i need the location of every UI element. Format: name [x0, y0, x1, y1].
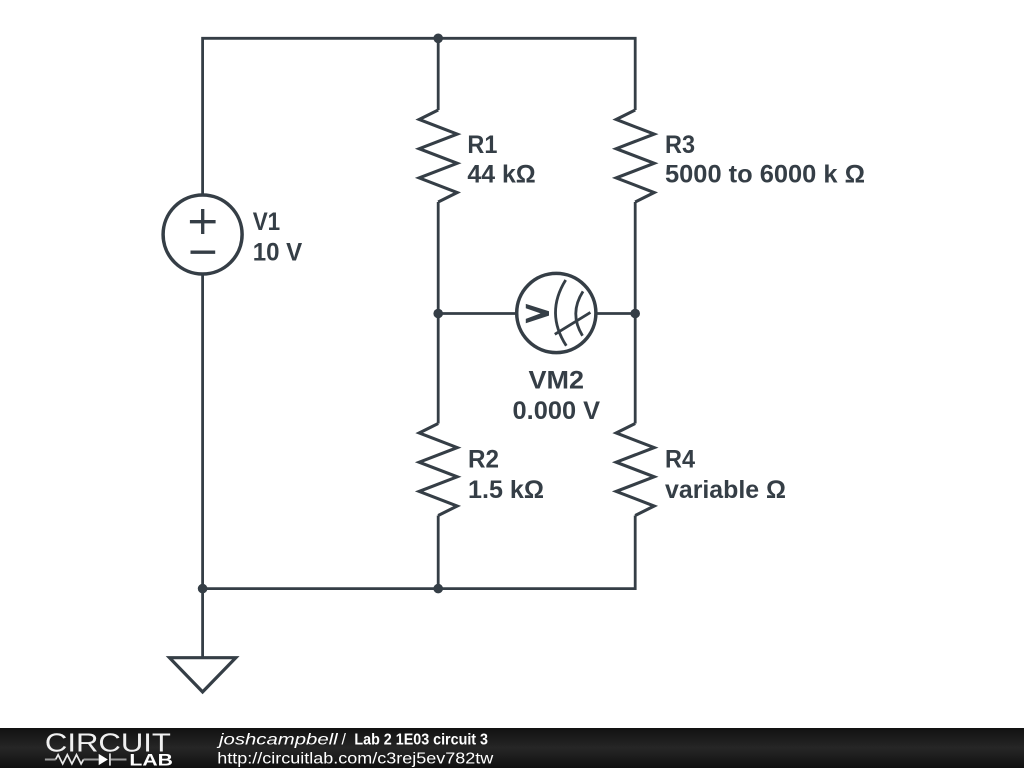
CircuitLab logo resistor squiggle wire — [45, 755, 127, 764]
svg-text:Lab 2 1E03 circuit 3: Lab 2 1E03 circuit 3 — [354, 731, 488, 748]
wire ground lead — [201, 589, 204, 658]
wire mid-right node to R4 top — [634, 314, 637, 424]
svg-text:variable Ω: variable Ω — [665, 476, 786, 504]
voltmeter VM2 — [517, 273, 596, 352]
svg-text:V1: V1 — [253, 208, 281, 236]
svg-text:1.5 kΩ: 1.5 kΩ — [468, 476, 544, 504]
svg-text:44 kΩ: 44 kΩ — [467, 161, 535, 189]
wire mid-left node to voltmeter — [438, 312, 517, 315]
svg-text:R3: R3 — [665, 131, 695, 159]
svg-text:R2: R2 — [468, 445, 499, 473]
resistor R1 — [419, 110, 457, 202]
wire bottom rail from V1 bottom through bottom bus up right rail — [203, 274, 636, 589]
node mid-left junction — [433, 309, 443, 319]
voltage source V1 — [163, 195, 242, 274]
wire R2 bottom to bottom rail — [437, 516, 440, 589]
wire middle rail top lead into R1 — [437, 38, 440, 110]
svg-text:R4: R4 — [665, 445, 695, 473]
svg-text:10 V: 10 V — [253, 239, 303, 267]
CircuitLab logo diode — [99, 753, 111, 765]
svg-text:joshcampbell: joshcampbell — [216, 731, 338, 748]
svg-text:/: / — [342, 731, 347, 748]
wire R3 bottom to mid-right node — [634, 202, 637, 314]
ground — [170, 658, 236, 692]
node top junction — [433, 34, 443, 44]
svg-text:VM2: VM2 — [529, 367, 585, 395]
node bottom-mid junction — [433, 584, 443, 594]
wire mid-left node to R2 top — [437, 314, 440, 424]
node bottom-left junction — [198, 584, 208, 594]
svg-text:0.000 V: 0.000 V — [513, 397, 601, 425]
svg-text:LAB: LAB — [129, 751, 173, 768]
wire R1 bottom to mid-left node — [437, 202, 440, 314]
footer credit line: joshcampbell / Lab 2 1E03 circuit 3 — [216, 731, 493, 767]
resistor R3 — [616, 110, 654, 202]
resistor R2 — [419, 424, 457, 516]
node mid-right junction — [630, 309, 640, 319]
svg-text:R1: R1 — [467, 131, 497, 159]
footer bar — [0, 728, 1024, 768]
svg-text:5000 to 6000 k Ω: 5000 to 6000 k Ω — [665, 161, 865, 189]
wire top rail with left and right drops — [203, 38, 636, 195]
svg-text:http://circuitlab.com/c3rej5ev: http://circuitlab.com/c3rej5ev782tw — [217, 751, 493, 768]
wire voltmeter to mid-right node — [596, 312, 635, 315]
resistor R4 — [616, 424, 654, 516]
